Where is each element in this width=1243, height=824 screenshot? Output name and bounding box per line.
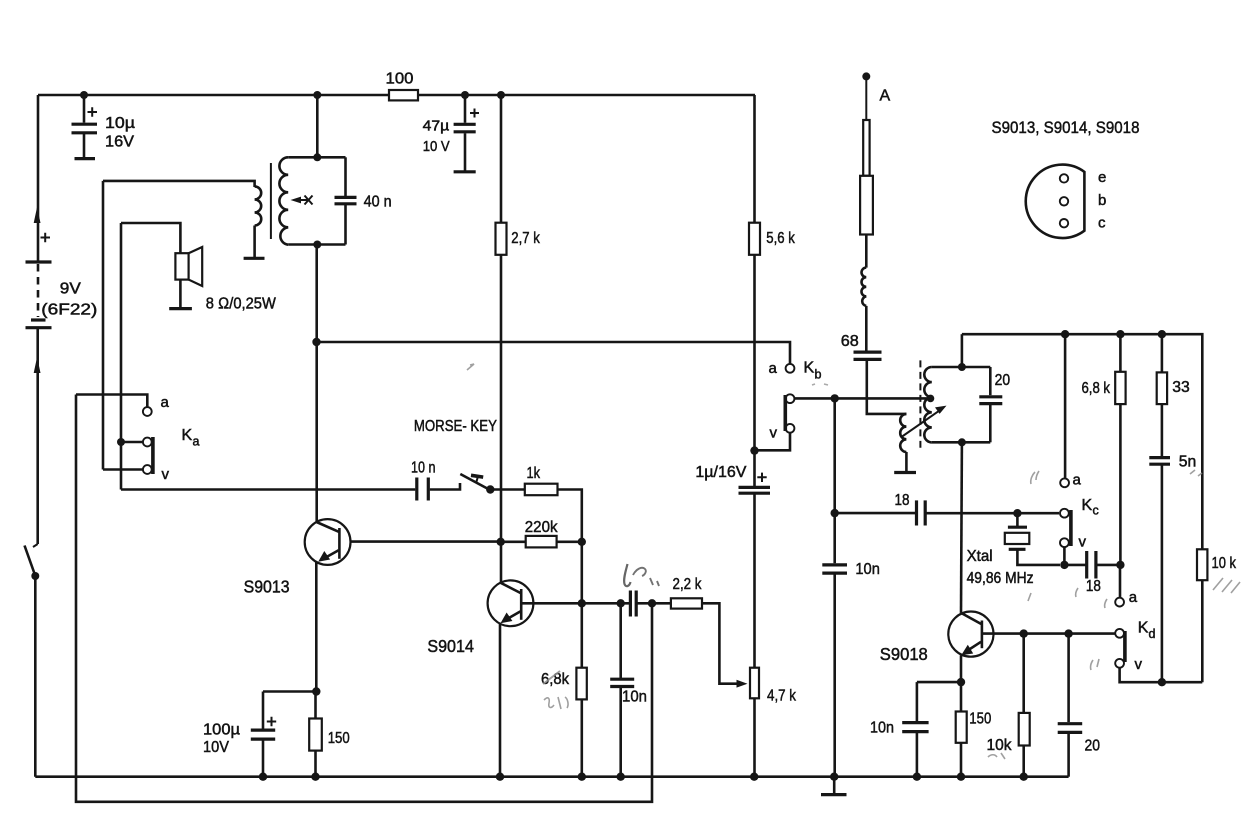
label Kc [1073, 472, 1099, 551]
transistor Q3 S9018 [880, 612, 994, 664]
svg-text:4,7 k: 4,7 k [767, 688, 797, 705]
wire 6k8 right upper [1119, 334, 1122, 372]
capacitor 20 bottom [1058, 724, 1100, 755]
wire junction down to S9014 base row [580, 542, 583, 604]
terminal Kd common [1115, 629, 1124, 638]
svg-text:6,8 k: 6,8 k [1082, 380, 1111, 397]
wire tank bottom lead [932, 441, 991, 444]
wire S9018 emitter [960, 655, 963, 711]
svg-text:5,6 k: 5,6 k [766, 230, 795, 247]
svg-text:1k: 1k [527, 465, 541, 482]
wire Kb branch vertical [833, 398, 836, 563]
svg-text:A: A [880, 88, 891, 105]
svg-text:MORSE- KEY: MORSE- KEY [414, 418, 497, 435]
capacitor 10u 16V [72, 95, 136, 159]
node Ka mid junction [117, 438, 125, 446]
wire emitter to 10n [917, 681, 961, 684]
wire 20 bottom branch [1067, 634, 1070, 723]
svg-text:10n: 10n [855, 561, 880, 578]
node tank bottom [958, 438, 966, 446]
pencil scribble over 6,8k [543, 671, 568, 709]
ground main [821, 777, 847, 795]
wire coil to ground [905, 452, 908, 472]
wire S9014 emitter [499, 623, 502, 777]
wire 10k bottom to rail [1022, 746, 1025, 777]
terminal Kc a [1060, 478, 1069, 487]
svg-text:v: v [1079, 534, 1087, 551]
svg-text:10 V: 10 V [423, 138, 450, 155]
pin b [1060, 197, 1068, 205]
capacitor 20 tank [979, 372, 1010, 404]
svg-text:49,86 MHz: 49,86 MHz [967, 570, 1034, 587]
switch blade Kd [1123, 631, 1127, 662]
node tank tap [927, 395, 935, 403]
node emitter-100u junction [312, 687, 320, 695]
wire speaker feed vertical [102, 181, 105, 470]
pot wiper arrow [737, 680, 748, 688]
current arrow up (bottom) [34, 357, 41, 373]
wire primary top lead to left [103, 181, 255, 187]
svg-text:18: 18 [895, 492, 910, 509]
node crystal junction [1013, 509, 1021, 517]
node 10k-rail [1020, 773, 1028, 781]
capacitor 68 [841, 333, 882, 359]
wire 33 to 5n [1161, 404, 1164, 456]
ground transformer [244, 257, 265, 260]
resistor 33 [1157, 372, 1190, 404]
svg-text:8 Ω/0,25W: 8 Ω/0,25W [206, 296, 277, 313]
wire battery to switch [36, 329, 39, 544]
wire tank right upper [989, 367, 992, 395]
wire 20 to rail corner [1067, 734, 1070, 777]
wire tank bottom lead [288, 243, 345, 246]
wire tank top to rail [961, 334, 964, 367]
wire S9013 collector vertical [315, 245, 318, 523]
node base-10n junction [617, 599, 625, 607]
svg-text:S9014: S9014 [427, 636, 474, 656]
wire top right rail [962, 334, 1202, 549]
wire 5k6 branch upper [753, 95, 756, 223]
resistor 6,8k mid [541, 668, 587, 700]
svg-text:2,7 k: 2,7 k [511, 230, 540, 247]
wire node to Kd a [1119, 565, 1122, 598]
node base-2k7 junction [497, 538, 505, 546]
node base-10k [1020, 629, 1028, 637]
node rail-Kc branch [1061, 330, 1069, 338]
wire S9018 collector [960, 442, 964, 613]
wire Kb common row to tank tap [795, 397, 931, 400]
svg-text:K: K [1082, 497, 1093, 514]
wire second bottom rail loop [76, 395, 652, 802]
pin c [1060, 219, 1068, 227]
node transformer top [313, 153, 321, 161]
wire 150 to rail [960, 743, 963, 777]
speaker 8ohm [169, 247, 276, 313]
transformer T1 secondary coil [279, 157, 288, 244]
terminal Kc common [1060, 509, 1069, 518]
resistor 220k [525, 519, 559, 548]
wire 10k bottom branch [1022, 634, 1025, 713]
wire 150 to rail [314, 751, 317, 777]
resistor 150 S9018 [956, 711, 992, 743]
svg-text:a: a [161, 394, 170, 411]
pencil scribble below 10k bottom [988, 753, 1005, 759]
terminal Kb a [786, 364, 795, 373]
svg-text:e: e [1098, 169, 1106, 186]
label Kd [1129, 589, 1156, 673]
switch blade Kb [783, 395, 787, 431]
node 150-rail [311, 773, 319, 781]
svg-text:16V: 16V [105, 134, 134, 151]
label Ka [161, 394, 200, 483]
wire long collector rail y342 [317, 342, 791, 364]
wire S9018 base row [982, 632, 1115, 635]
svg-text:18: 18 [1086, 578, 1101, 595]
node 18-6k8 [1116, 561, 1124, 569]
svg-text:20: 20 [995, 372, 1011, 389]
wire top +9V rail left segment [38, 94, 389, 97]
wire speaker top lead [121, 223, 180, 253]
svg-text:b: b [815, 368, 822, 382]
terminal Kb common [786, 394, 795, 403]
capacitor 10n S9018 [870, 682, 929, 781]
svg-text:S9018: S9018 [880, 644, 928, 664]
node rail-33 branch [1158, 330, 1166, 338]
wire tank top lead [288, 156, 345, 159]
wire 10k right to Kd row [1201, 580, 1204, 682]
wire 6k8 to rail [580, 699, 583, 776]
svg-text:100µ: 100µ [203, 722, 240, 739]
svg-text:10V: 10V [203, 739, 229, 756]
wire 5n to Kd bottom row [1161, 466, 1164, 683]
transformer core [270, 163, 272, 239]
svg-text:(6F22): (6F22) [41, 302, 97, 319]
wire 2k7 branch upper [500, 95, 503, 223]
terminal Ka a [143, 407, 152, 416]
resistor 10k bottom [987, 713, 1030, 754]
wire tank top lead [932, 366, 991, 369]
node collector rail left [312, 338, 320, 346]
svg-text:K: K [1138, 620, 1149, 637]
svg-text:a: a [1129, 589, 1138, 606]
node transformer bottom [313, 241, 321, 249]
resistor 5,6k [749, 223, 796, 255]
svg-text:10 n: 10 n [411, 460, 436, 477]
svg-text:v: v [1135, 656, 1143, 673]
svg-text:9V: 9V [60, 281, 81, 298]
svg-text:S9013: S9013 [244, 576, 290, 596]
node rail-2k7 [497, 91, 505, 99]
wire junction to 100u [263, 690, 316, 693]
node Kc v junction [1060, 561, 1068, 569]
wire tank right side lower [344, 205, 347, 245]
svg-text:47µ: 47µ [423, 119, 450, 135]
terminal Ka v [143, 465, 152, 474]
pencil marks near Kc a [1031, 471, 1039, 484]
svg-text:10 k: 10 k [1212, 555, 1237, 572]
svg-text:10µ: 10µ [105, 115, 135, 132]
pencil scribble near coupling cap [624, 564, 659, 586]
pencil marks near 5n [1190, 470, 1202, 476]
node 10n rail / ground [830, 773, 838, 781]
svg-text:100: 100 [386, 71, 414, 88]
svg-text:Xtal: Xtal [967, 548, 993, 565]
wire morse row left [121, 488, 415, 491]
svg-text:68: 68 [841, 333, 859, 350]
transistor Q2 S9014 [427, 580, 533, 655]
wire 6k8 branch upper [580, 603, 583, 667]
svg-text:S9013, S9014, S9018: S9013, S9014, S9018 [992, 118, 1140, 137]
terminal Kb v [786, 424, 795, 433]
pin labels [1098, 169, 1106, 232]
node Kd row-5n [1158, 678, 1166, 686]
wire Ka v row [103, 468, 143, 471]
svg-text:220k: 220k [525, 519, 559, 536]
transistor Q1 S9013 [244, 519, 351, 596]
wire 10n mid to rail [619, 688, 622, 777]
terminal Kd v [1115, 659, 1124, 668]
wire Kc v down to 18 row [1063, 547, 1066, 565]
inductor antenna choke [862, 268, 867, 306]
svg-text:v: v [162, 466, 170, 483]
wire tank right side upper [344, 157, 347, 196]
terminal Kc v [1060, 538, 1069, 547]
switch S on/off [25, 544, 40, 580]
switch blade Kc [1069, 510, 1073, 546]
capacitor 10n mid [610, 679, 647, 705]
wire 33 upper [1161, 334, 1164, 372]
capacitor 1u/16V [695, 464, 770, 493]
node pot-rail [750, 773, 758, 781]
wire S9013 emitter vertical [315, 563, 318, 692]
wire 1k right corner down [558, 490, 582, 542]
svg-text:a: a [769, 360, 778, 377]
svg-text:a: a [1073, 472, 1082, 489]
svg-text:10n: 10n [622, 689, 647, 706]
node rail-6k8 branch [1116, 330, 1124, 338]
label Kb [769, 360, 822, 442]
wire Ka mid row [121, 441, 143, 444]
wire 6k8 right lower [1119, 404, 1122, 565]
potentiometer 4,7k [750, 668, 797, 705]
svg-text:v: v [770, 425, 778, 442]
node tank top [958, 363, 966, 371]
wire Kb v to 5k6 node [755, 433, 791, 451]
wire morse dot to 1k [490, 488, 525, 491]
svg-text:20: 20 [1085, 738, 1101, 755]
wire S9014 base row [521, 602, 629, 605]
node rail-transformer [313, 91, 321, 99]
wire bottom ground rail [35, 775, 1068, 778]
node Kb branch-18 [831, 509, 839, 517]
wire to 18 right [1064, 564, 1085, 567]
terminal Ka common [143, 438, 152, 447]
capacitor 100u 10V [203, 692, 276, 781]
pencil tick center [467, 364, 474, 370]
svg-text:150: 150 [969, 711, 991, 728]
wire 2,2k to pot wiper [702, 603, 740, 683]
node emitter-10n [957, 678, 965, 686]
node emitter-rail [496, 773, 504, 781]
svg-text:10n: 10n [870, 720, 894, 737]
wire speaker branch down to Ka [120, 223, 123, 490]
svg-text:a: a [193, 435, 200, 449]
wire 220k right lead [557, 540, 582, 543]
pinout TO-92 outline [1026, 165, 1085, 238]
ground matching coil [894, 471, 916, 474]
capacitor coupling (handwritten value) [630, 591, 636, 617]
wire 2k7 branch lower / S9014 collector [500, 255, 503, 582]
node rail-47u [461, 91, 469, 99]
resistor 2,7k [496, 223, 541, 255]
resistor 150 emitter S9013 [309, 719, 350, 751]
capacitor 10n morse [411, 460, 436, 501]
svg-text:5n: 5n [1179, 454, 1197, 471]
morse key [414, 418, 497, 494]
tap arrow with x [291, 196, 313, 205]
wire Kc a branch [1064, 334, 1067, 478]
core dashes tank [919, 360, 921, 447]
node rail-10u [80, 91, 88, 99]
wire Kd v to bottom row [1120, 668, 1203, 682]
resistor 10k right [1197, 549, 1237, 580]
wire 18 right to 6k8 node [1097, 564, 1120, 567]
node feedback junction [648, 599, 656, 607]
wire switch to bottom rail [34, 576, 37, 777]
inductor matching (adjustable) [900, 414, 906, 452]
trimmer arrow [901, 406, 947, 438]
node 6k8-rail [578, 773, 586, 781]
inductor tank coil [924, 367, 932, 442]
wire choke to 68 [865, 306, 868, 351]
node base-20 [1064, 629, 1072, 637]
wire pot to rail [753, 698, 756, 776]
transformer T1 primary coil [255, 186, 262, 225]
svg-text:150: 150 [328, 730, 350, 747]
svg-text:40 n: 40 n [364, 194, 392, 211]
svg-text:10k: 10k [987, 737, 1013, 754]
node 150-rail [957, 773, 965, 781]
capacitor 47u 10V [423, 95, 479, 172]
node Kb v junction [750, 446, 758, 454]
wire 10n mid branch [619, 603, 622, 678]
wire transformer top stub [316, 95, 319, 157]
wire 68 to matching coil [867, 361, 907, 414]
node Kb-10n branch [831, 394, 839, 402]
antenna A [860, 72, 890, 267]
svg-text:1µ/16V: 1µ/16V [695, 464, 746, 481]
crystal Xtal 49,86MHz [967, 513, 1060, 587]
wire 10n left to rail [833, 574, 836, 776]
node 10n-rail [617, 773, 625, 781]
pencil dots near Kb [812, 384, 828, 385]
capacitor 40n [335, 194, 392, 211]
svg-text:K: K [804, 360, 815, 377]
resistor 1k [525, 465, 558, 495]
wire Ka row a [76, 395, 147, 408]
wire S9013 base row [339, 540, 500, 543]
wire top +9V rail right segment [418, 94, 755, 97]
node base-6k8 junction [578, 599, 586, 607]
wire primary bottom lead [253, 226, 256, 258]
current arrow up (top) [34, 207, 41, 223]
resistor 2,2k [671, 576, 702, 609]
svg-text:c: c [1098, 215, 1106, 232]
svg-text:d: d [1149, 627, 1156, 641]
svg-text:b: b [1098, 192, 1106, 209]
wire 18 left row [835, 512, 915, 515]
wire junction to 220k [501, 540, 526, 543]
wire left rail down to battery [37, 95, 40, 261]
capacitor 18 left [895, 492, 926, 526]
resistor 100 (series in rail) [389, 90, 418, 100]
svg-text:2,2 k: 2,2 k [673, 576, 703, 593]
capacitor 10n left [822, 561, 880, 578]
svg-text:K: K [182, 427, 193, 444]
wire tank right lower [989, 405, 992, 442]
pencil marks near Kd a [1091, 599, 1107, 670]
battery 9V 6F22 [26, 233, 98, 328]
wire emitter to 150 [314, 692, 317, 719]
svg-text:c: c [1093, 504, 1099, 518]
terminal Kd a [1115, 598, 1124, 607]
wire cap to feedback node [638, 602, 671, 605]
node 220k-1k junction [578, 538, 586, 546]
pin e [1060, 174, 1068, 182]
wire 5k6 branch lower [753, 255, 756, 486]
wire 1u to 4,7k pot [753, 495, 756, 668]
capacitor 5n [1149, 454, 1196, 471]
resistor 6,8k right [1082, 372, 1126, 404]
pencil mark near 18 label [1028, 588, 1078, 601]
wire 18 to Kc common [927, 512, 1060, 515]
svg-text:33: 33 [1172, 379, 1190, 396]
capacitor 18 right [1086, 551, 1101, 595]
switch blade Ka [151, 437, 155, 474]
pencil scribble near 10k right [1213, 578, 1240, 593]
